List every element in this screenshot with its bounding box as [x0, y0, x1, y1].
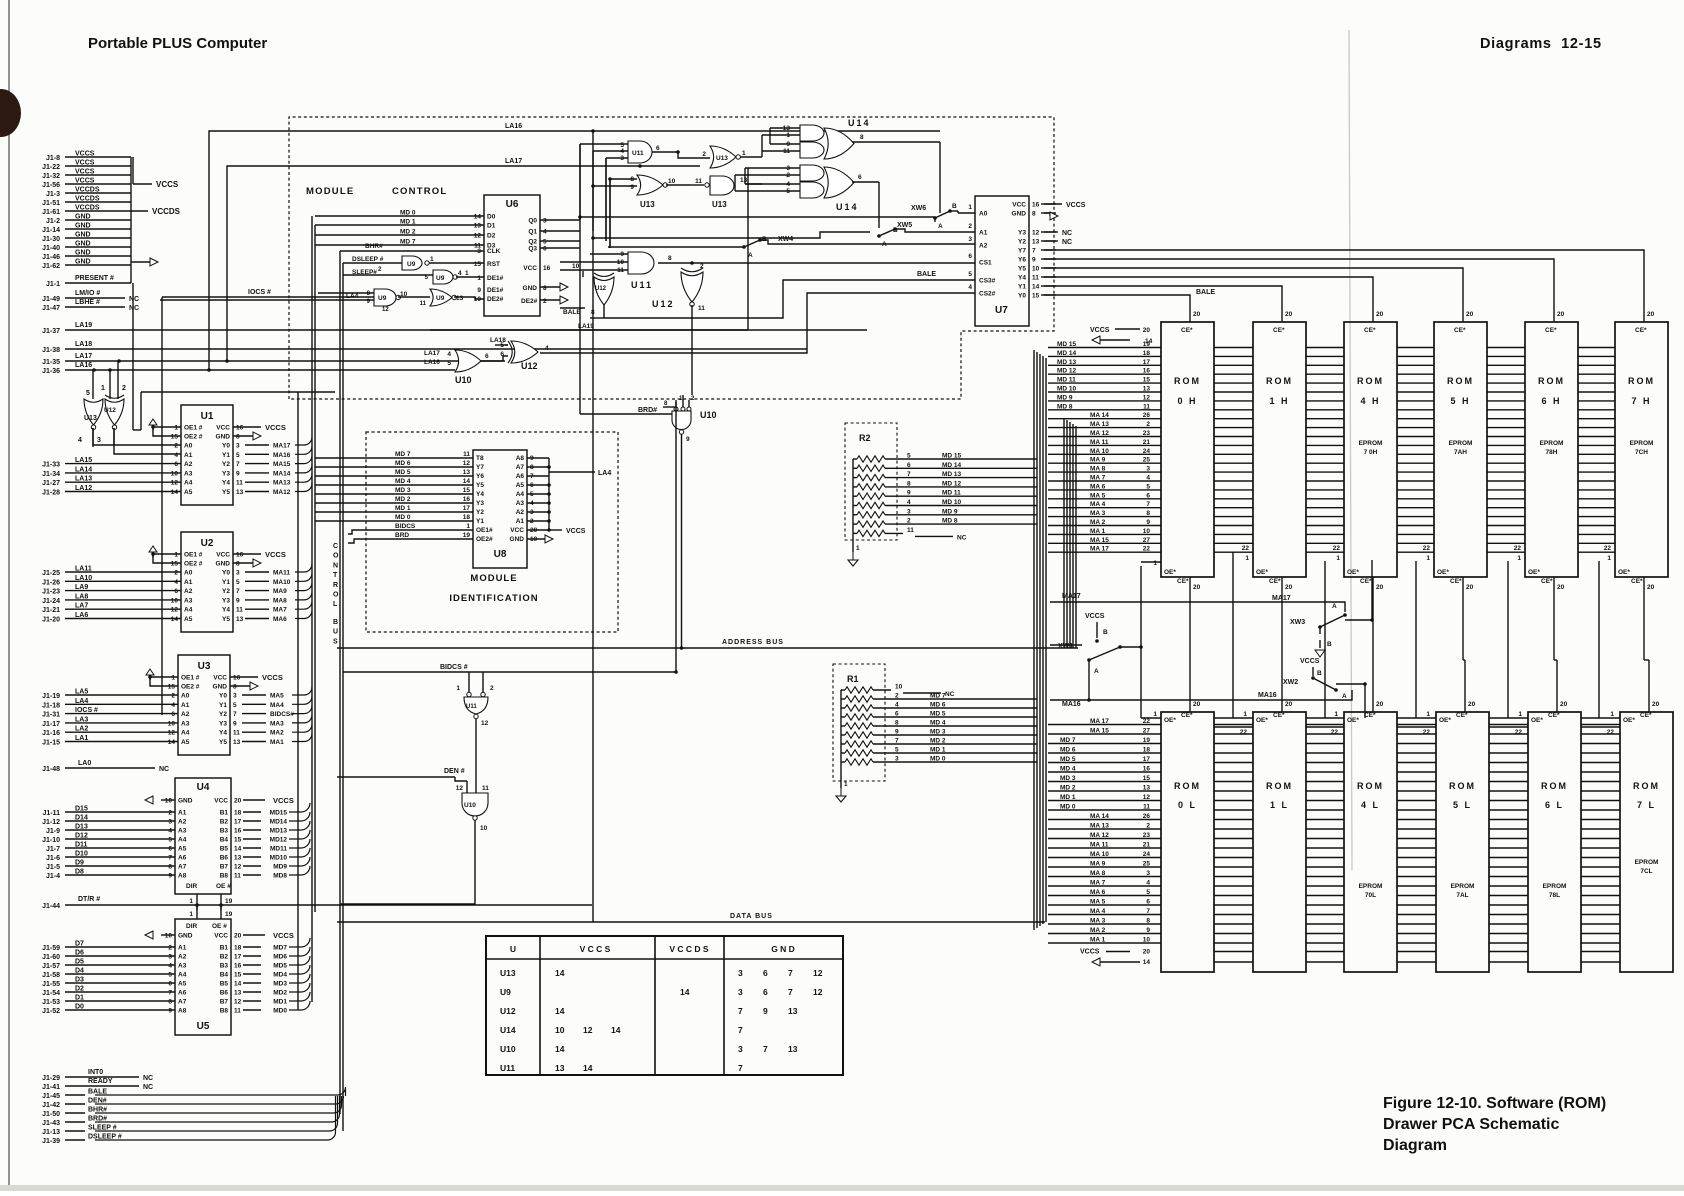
svg-text:6: 6 — [1146, 492, 1150, 499]
svg-text:7: 7 — [236, 461, 240, 468]
svg-text:15: 15 — [171, 561, 179, 568]
svg-text:MA 5: MA 5 — [1090, 899, 1106, 906]
svg-text:VCC: VCC — [213, 675, 227, 682]
svg-text:U12: U12 — [521, 361, 538, 371]
svg-text:Y5: Y5 — [1018, 266, 1026, 273]
svg-text:1 L: 1 L — [1270, 800, 1289, 810]
svg-text:1: 1 — [1153, 711, 1157, 718]
svg-text:20: 20 — [1376, 584, 1384, 591]
wire DSLEEP # — [42, 1096, 335, 1145]
svg-text:ROM: ROM — [1633, 781, 1660, 791]
svg-text:3: 3 — [738, 968, 743, 978]
wire LA17 — [42, 353, 505, 366]
svg-text:14: 14 — [1143, 959, 1151, 966]
svg-text:19: 19 — [1143, 341, 1151, 348]
buffer U1 — [42, 405, 312, 505]
svg-text:MA 13: MA 13 — [1090, 823, 1109, 830]
svg-text:MD2: MD2 — [273, 990, 287, 997]
svg-text:20: 20 — [1652, 701, 1660, 708]
svg-text:XW5: XW5 — [897, 222, 912, 229]
svg-text:20: 20 — [1285, 701, 1293, 708]
svg-text:BHR#: BHR# — [365, 243, 383, 250]
svg-text:16: 16 — [463, 496, 471, 503]
svg-text:8: 8 — [236, 434, 240, 441]
svg-text:MA 12: MA 12 — [1090, 430, 1109, 437]
svg-text:GND: GND — [75, 241, 91, 248]
svg-text:U13: U13 — [84, 415, 97, 422]
svg-text:MD 6: MD 6 — [1060, 747, 1076, 754]
svg-text:Y6: Y6 — [1018, 257, 1026, 264]
svg-text:Y1: Y1 — [219, 702, 227, 709]
svg-text:20: 20 — [1466, 311, 1474, 318]
svg-text:OE #: OE # — [212, 923, 227, 930]
wire MA16 line to switches — [1050, 690, 1352, 708]
svg-text:Y4: Y4 — [222, 480, 230, 487]
svg-text:A1: A1 — [178, 810, 187, 817]
svg-text:J1-13: J1-13 — [42, 1129, 60, 1136]
svg-text:MA 17: MA 17 — [1090, 718, 1109, 725]
svg-text:MA8: MA8 — [273, 597, 287, 604]
svg-text:VCCS: VCCS — [1066, 202, 1086, 209]
wire BRD vertical — [683, 380, 692, 395]
svg-text:B: B — [1317, 670, 1322, 677]
svg-text:13: 13 — [788, 1044, 798, 1054]
gate U9 nor out — [420, 289, 484, 307]
svg-text:3: 3 — [968, 236, 972, 243]
svg-text:DATA BUS: DATA BUS — [730, 913, 773, 920]
svg-text:11: 11 — [695, 178, 702, 185]
gate U13 left NOR — [78, 370, 103, 445]
svg-text:J1-44: J1-44 — [42, 903, 60, 910]
svg-text:13: 13 — [740, 177, 748, 184]
svg-text:GND: GND — [178, 933, 193, 940]
connector J1-49 LM/IO# — [42, 290, 139, 303]
svg-text:Diagrams 12-15: Diagrams 12-15 — [1480, 36, 1602, 52]
gate U12 left XOR — [97, 361, 126, 445]
svg-text:9: 9 — [233, 720, 237, 727]
svg-text:LA4: LA4 — [346, 293, 359, 300]
svg-text:12: 12 — [234, 999, 242, 1006]
svg-text:VCC: VCC — [216, 552, 230, 559]
svg-text:4: 4 — [968, 284, 972, 291]
svg-text:GND: GND — [216, 561, 231, 568]
svg-text:D4: D4 — [75, 968, 84, 975]
switch XW6 — [911, 203, 975, 230]
scan edge left — [8, 0, 10, 1191]
svg-text:5: 5 — [968, 271, 972, 278]
svg-text:VCCDS: VCCDS — [75, 205, 100, 212]
svg-text:5 H: 5 H — [1450, 396, 1470, 406]
svg-text:J1-29: J1-29 — [42, 1075, 60, 1082]
svg-text:OE2 #: OE2 # — [181, 684, 200, 691]
svg-text:Y0: Y0 — [1018, 293, 1026, 300]
svg-text:7: 7 — [788, 987, 793, 997]
svg-text:J1-50: J1-50 — [42, 1111, 60, 1118]
svg-text:VCCS: VCCS — [1300, 658, 1320, 665]
svg-text:A4: A4 — [516, 491, 525, 498]
svg-text:A7: A7 — [178, 999, 187, 1006]
svg-text:6: 6 — [1146, 899, 1150, 906]
svg-text:MA16: MA16 — [1062, 701, 1081, 708]
svg-text:1: 1 — [189, 911, 193, 918]
svg-text:A8: A8 — [178, 873, 187, 880]
ROM 0L (U0L) — [1161, 712, 1214, 972]
svg-text:XW1: XW1 — [1058, 643, 1073, 650]
svg-text:LA15: LA15 — [75, 457, 92, 464]
svg-text:MA 4: MA 4 — [1090, 908, 1106, 915]
svg-text:7: 7 — [168, 855, 172, 862]
text module control — [306, 186, 447, 197]
svg-text:B1: B1 — [220, 810, 229, 817]
svg-text:2: 2 — [122, 385, 126, 392]
svg-text:BIDCS: BIDCS — [395, 523, 416, 530]
svg-text:RST: RST — [487, 261, 500, 268]
svg-text:B8: B8 — [220, 873, 229, 880]
svg-text:13: 13 — [1143, 386, 1151, 393]
svg-text:9: 9 — [236, 470, 240, 477]
svg-text:R: R — [333, 582, 338, 589]
svg-text:4: 4 — [1146, 475, 1150, 482]
svg-text:OE*: OE* — [1164, 717, 1176, 724]
svg-text:10: 10 — [668, 178, 676, 185]
svg-text:4 L: 4 L — [1361, 800, 1380, 810]
svg-text:Y7: Y7 — [476, 464, 484, 471]
wire DT/R# — [42, 896, 592, 910]
svg-text:MA 5: MA 5 — [1090, 492, 1106, 499]
svg-text:VCCS: VCCS — [1090, 327, 1110, 334]
svg-text:LA4: LA4 — [75, 698, 88, 705]
text ROM top row pin labels — [1057, 327, 1153, 553]
svg-text:A2: A2 — [979, 243, 988, 250]
svg-text:VCCDS: VCCDS — [75, 187, 100, 194]
wire SLEEP # — [42, 1096, 337, 1136]
svg-text:MD7: MD7 — [273, 945, 287, 952]
svg-text:J1-25: J1-25 — [42, 570, 60, 577]
svg-text:4: 4 — [543, 229, 547, 236]
svg-text:MA17: MA17 — [1062, 593, 1081, 600]
svg-text:A8: A8 — [516, 455, 525, 462]
svg-text:25: 25 — [1143, 457, 1151, 464]
svg-text:20: 20 — [234, 933, 242, 940]
svg-text:J1-20: J1-20 — [42, 617, 60, 624]
svg-text:A3: A3 — [178, 963, 187, 970]
svg-text:20: 20 — [1557, 584, 1565, 591]
gate U11 and mid — [560, 251, 870, 290]
resistor network R1 — [833, 664, 1037, 802]
svg-text:Y0: Y0 — [222, 443, 230, 450]
connector J1-47 LBHE# — [42, 299, 139, 312]
svg-text:18: 18 — [234, 945, 242, 952]
svg-text:U9: U9 — [436, 275, 445, 282]
svg-text:MD14: MD14 — [270, 819, 288, 826]
svg-text:A0: A0 — [979, 211, 988, 218]
svg-text:20: 20 — [1560, 701, 1568, 708]
svg-text:D0: D0 — [487, 214, 496, 221]
svg-text:16: 16 — [1143, 368, 1151, 375]
svg-text:MA17: MA17 — [1272, 595, 1291, 602]
svg-text:21: 21 — [1143, 439, 1151, 446]
svg-text:B: B — [952, 203, 957, 210]
svg-text:DE2#: DE2# — [487, 296, 504, 303]
svg-text:MA9: MA9 — [273, 588, 287, 595]
svg-text:Y3: Y3 — [222, 597, 230, 604]
svg-text:LA1: LA1 — [75, 735, 88, 742]
wire LA16 — [42, 362, 455, 375]
svg-text:10: 10 — [165, 798, 173, 805]
svg-text:1: 1 — [477, 275, 481, 282]
svg-text:2: 2 — [174, 570, 178, 577]
svg-text:MD8: MD8 — [273, 873, 287, 880]
svg-text:MD 1: MD 1 — [395, 505, 411, 512]
svg-text:12: 12 — [234, 864, 242, 871]
svg-text:LA13: LA13 — [75, 476, 92, 483]
svg-text:D5: D5 — [75, 959, 84, 966]
svg-text:MA 2: MA 2 — [1090, 927, 1106, 934]
svg-text:MD6: MD6 — [273, 954, 287, 961]
svg-text:U5: U5 — [197, 1021, 210, 1032]
svg-text:J1-48: J1-48 — [42, 766, 60, 773]
svg-text:13: 13 — [1143, 785, 1151, 792]
svg-text:Y0: Y0 — [219, 693, 227, 700]
svg-text:20: 20 — [1193, 584, 1201, 591]
svg-text:GND: GND — [75, 232, 91, 239]
svg-text:B2: B2 — [220, 954, 229, 961]
svg-text:5: 5 — [543, 239, 547, 246]
svg-text:LA2: LA2 — [75, 726, 88, 733]
svg-text:A4: A4 — [184, 480, 193, 487]
svg-text:A3: A3 — [178, 828, 187, 835]
svg-text:LA16: LA16 — [424, 359, 440, 366]
svg-text:4: 4 — [1146, 880, 1150, 887]
svg-text:B4: B4 — [220, 837, 229, 844]
svg-text:3: 3 — [236, 570, 240, 577]
svg-text:J1-2: J1-2 — [46, 218, 60, 225]
svg-text:13: 13 — [474, 223, 482, 230]
svg-text:2: 2 — [168, 810, 172, 817]
svg-text:G N D: G N D — [771, 944, 795, 954]
svg-text:10: 10 — [165, 933, 173, 940]
svg-text:16: 16 — [1032, 202, 1040, 209]
svg-text:MA11: MA11 — [273, 570, 290, 577]
svg-text:J1-31: J1-31 — [42, 712, 60, 719]
latch U6 — [315, 195, 580, 316]
svg-text:6: 6 — [171, 711, 175, 718]
svg-text:J1-18: J1-18 — [42, 702, 60, 709]
svg-text:VCCS: VCCS — [273, 796, 294, 805]
svg-text:NC: NC — [143, 1084, 153, 1091]
svg-text:VCCS: VCCS — [75, 151, 95, 158]
wire long left verticals — [133, 283, 141, 430]
svg-text:VCCDS: VCCDS — [152, 207, 181, 216]
gate U13 nor mid — [591, 175, 690, 209]
ROM 4H (U4) — [1344, 308, 1397, 591]
svg-text:A8: A8 — [178, 1008, 187, 1015]
svg-text:J1-36: J1-36 — [42, 368, 60, 375]
svg-text:U13: U13 — [716, 155, 728, 162]
svg-text:GND: GND — [75, 259, 91, 266]
svg-text:A3: A3 — [184, 470, 193, 477]
svg-text:6: 6 — [500, 351, 504, 358]
svg-text:CE*: CE* — [1635, 327, 1647, 334]
svg-text:MA 15: MA 15 — [1090, 537, 1109, 544]
svg-text:A: A — [1332, 603, 1337, 610]
svg-text:U4: U4 — [197, 782, 210, 793]
svg-text:9: 9 — [168, 1008, 172, 1015]
svg-text:11: 11 — [233, 730, 240, 737]
svg-text:5: 5 — [1146, 483, 1150, 490]
svg-text:LM/IO #: LM/IO # — [75, 290, 100, 297]
svg-text:J1-6: J1-6 — [46, 855, 60, 862]
svg-text:10: 10 — [480, 825, 488, 832]
wire OE chain verticals in ROM gaps — [1325, 561, 1599, 718]
svg-text:ROM: ROM — [1357, 781, 1384, 791]
svg-text:6 H: 6 H — [1541, 396, 1561, 406]
svg-text:Y2: Y2 — [1018, 239, 1026, 246]
svg-text:A1: A1 — [184, 579, 193, 586]
caption figure title — [1383, 1095, 1606, 1154]
svg-text:Y5: Y5 — [476, 482, 484, 489]
svg-text:ROM: ROM — [1357, 376, 1384, 386]
svg-text:J1-40: J1-40 — [42, 245, 60, 252]
svg-text:22: 22 — [1143, 546, 1151, 553]
svg-text:12: 12 — [168, 730, 176, 737]
svg-text:9: 9 — [1146, 927, 1150, 934]
svg-text:EPROM: EPROM — [1543, 883, 1567, 890]
svg-text:A6: A6 — [178, 990, 187, 997]
ROM 1L (U1L) — [1253, 712, 1306, 972]
svg-text:MD11: MD11 — [270, 846, 287, 853]
resistor network R2 — [845, 423, 1037, 566]
svg-text:VCCS: VCCS — [273, 931, 294, 940]
svg-text:J1-16: J1-16 — [42, 730, 60, 737]
svg-text:ROM: ROM — [1266, 781, 1293, 791]
gate U12 xor small — [560, 263, 614, 318]
svg-text:12: 12 — [456, 785, 464, 792]
svg-text:11: 11 — [482, 785, 489, 792]
svg-text:BALE: BALE — [917, 271, 936, 278]
svg-text:16: 16 — [543, 265, 551, 272]
svg-text:3: 3 — [233, 693, 237, 700]
svg-text:20: 20 — [234, 798, 242, 805]
svg-text:PRESENT #: PRESENT # — [75, 275, 114, 282]
svg-text:MA4: MA4 — [270, 702, 284, 709]
svg-text:J1-12: J1-12 — [42, 819, 60, 826]
svg-text:A2: A2 — [184, 461, 193, 468]
svg-text:14: 14 — [171, 616, 179, 623]
svg-text:9: 9 — [1146, 519, 1150, 526]
wire READY NC — [42, 1078, 153, 1091]
svg-text:Q0: Q0 — [528, 218, 537, 225]
wire address bus risers right — [1064, 418, 1076, 648]
svg-text:Y3: Y3 — [476, 500, 484, 507]
svg-text:15: 15 — [171, 434, 179, 441]
svg-text:Q1: Q1 — [528, 229, 537, 236]
svg-text:MA 8: MA 8 — [1090, 466, 1106, 473]
wire data bus — [337, 913, 1045, 922]
svg-text:VCCS: VCCS — [75, 160, 95, 167]
svg-text:MD 15: MD 15 — [1057, 341, 1077, 348]
svg-text:1: 1 — [171, 675, 175, 682]
svg-text:7: 7 — [738, 1025, 743, 1035]
svg-text:MD 5: MD 5 — [395, 469, 411, 476]
svg-text:12: 12 — [1143, 394, 1151, 401]
svg-text:1: 1 — [465, 270, 469, 277]
svg-text:MD 11: MD 11 — [1057, 377, 1076, 384]
svg-text:14: 14 — [168, 739, 176, 746]
svg-text:19: 19 — [463, 532, 471, 539]
svg-text:8: 8 — [168, 864, 172, 871]
svg-text:24: 24 — [1143, 448, 1151, 455]
svg-text:MD 4: MD 4 — [1060, 766, 1076, 773]
svg-text:1: 1 — [456, 685, 460, 692]
svg-text:CE*: CE* — [1181, 712, 1193, 719]
svg-text:22: 22 — [1143, 718, 1151, 725]
svg-text:A4: A4 — [181, 730, 190, 737]
svg-text:MD3: MD3 — [273, 981, 287, 988]
wire LA16 riser to top — [209, 123, 940, 370]
svg-text:VCC: VCC — [216, 425, 230, 432]
svg-text:MD 2: MD 2 — [395, 496, 411, 503]
svg-text:A1: A1 — [979, 230, 988, 237]
svg-text:22: 22 — [1242, 545, 1250, 552]
svg-text:21: 21 — [1143, 842, 1151, 849]
svg-text:Y1: Y1 — [476, 518, 484, 525]
svg-text:CE*: CE* — [1273, 712, 1285, 719]
buffer U3 — [42, 655, 312, 755]
svg-text:J1-47: J1-47 — [42, 305, 60, 312]
svg-text:U: U — [510, 944, 516, 954]
svg-text:10: 10 — [171, 470, 179, 477]
svg-text:NC: NC — [129, 296, 139, 303]
svg-text:20: 20 — [1143, 949, 1151, 956]
svg-text:14: 14 — [555, 968, 565, 978]
svg-text:19: 19 — [225, 898, 233, 905]
svg-text:1: 1 — [1153, 560, 1157, 567]
svg-text:11: 11 — [234, 873, 241, 880]
wire BIDCS# — [343, 400, 678, 693]
svg-text:B3: B3 — [220, 963, 229, 970]
svg-text:7 0H: 7 0H — [1364, 449, 1378, 456]
svg-text:MA14: MA14 — [273, 470, 291, 477]
ROM 7H (U7) — [1615, 308, 1668, 591]
svg-text:U9: U9 — [407, 261, 416, 268]
svg-text:MD4: MD4 — [273, 972, 287, 979]
svg-text:7: 7 — [168, 990, 172, 997]
svg-text:VCCS: VCCS — [265, 423, 286, 432]
svg-text:J1-35: J1-35 — [42, 359, 60, 366]
svg-text:VCC: VCC — [214, 798, 228, 805]
svg-text:DE1#: DE1# — [487, 287, 504, 294]
switch XW2 — [1283, 658, 1367, 700]
svg-text:MA 14: MA 14 — [1090, 813, 1109, 820]
svg-text:VCC: VCC — [523, 265, 537, 272]
svg-text:Y3: Y3 — [219, 720, 227, 727]
svg-text:MD 7: MD 7 — [400, 239, 416, 246]
text control bus — [333, 543, 339, 645]
svg-text:MD 5: MD 5 — [1060, 756, 1076, 763]
svg-text:B6: B6 — [220, 855, 229, 862]
svg-text:Y5: Y5 — [222, 616, 230, 623]
svg-text:OE2 #: OE2 # — [184, 434, 203, 441]
svg-text:8: 8 — [233, 684, 237, 691]
svg-text:MD 0: MD 0 — [400, 210, 416, 217]
svg-text:20: 20 — [1143, 327, 1151, 334]
svg-text:B1: B1 — [220, 945, 229, 952]
svg-text:U12: U12 — [500, 1006, 516, 1016]
svg-text:6: 6 — [168, 981, 172, 988]
svg-text:U10: U10 — [464, 802, 476, 809]
svg-text:15: 15 — [463, 487, 471, 494]
